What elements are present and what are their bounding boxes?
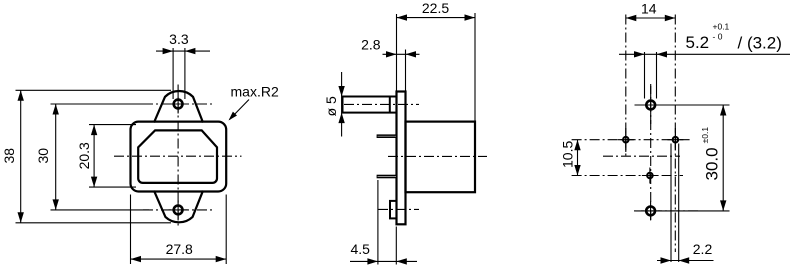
- svg-text:2.2: 2.2: [693, 241, 713, 257]
- svg-text:- 0: - 0: [713, 31, 723, 41]
- svg-text:ø 5: ø 5: [323, 96, 339, 116]
- svg-text:14: 14: [641, 1, 657, 17]
- svg-text:5.2: 5.2: [686, 33, 710, 52]
- svg-text:+0.1: +0.1: [713, 22, 730, 32]
- svg-text:20.3: 20.3: [76, 142, 92, 169]
- svg-text:4.5: 4.5: [350, 241, 370, 257]
- svg-text:max.R2: max.R2: [231, 84, 279, 100]
- svg-text:10.5: 10.5: [559, 141, 575, 168]
- svg-text:22.5: 22.5: [422, 0, 449, 16]
- svg-text:3.3: 3.3: [169, 31, 189, 47]
- svg-text:27.8: 27.8: [166, 241, 193, 257]
- svg-text:/ (3.2): / (3.2): [738, 33, 782, 52]
- svg-text:2.8: 2.8: [361, 36, 381, 52]
- svg-text:38: 38: [1, 148, 17, 164]
- svg-text:30: 30: [35, 148, 51, 164]
